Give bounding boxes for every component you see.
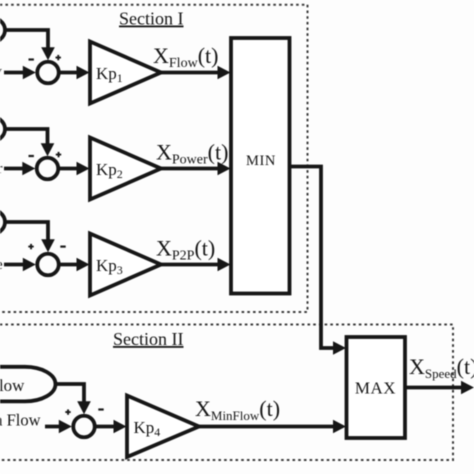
svg-text:e: e [0,257,3,273]
svg-text:MAX: MAX [355,379,396,398]
arrow MAX output [461,381,474,395]
wire input arrow row 4 [45,425,62,429]
wire S3 to Kp3 [61,263,81,267]
summing junction S2 [37,158,59,180]
arrow into Kp4 [114,420,127,434]
plus sign S1 [56,57,61,59]
svg-text:Flow: Flow [0,376,25,395]
sign symbols [28,55,103,415]
op-amp gain Kp1 [90,42,161,104]
arrow into MAX top input [333,341,346,355]
wire input arrow row 1 [4,71,26,75]
plus sign S2 [56,154,61,156]
Section II dashed box [0,325,453,461]
summing junction S4 [73,416,95,438]
arrow into S3 top [41,239,55,252]
arrow into MIN row1 [218,66,231,80]
wire oval3 to summer 3 [5,222,48,242]
wire Kp3 to MIN [161,263,219,267]
op-amp gain Kp2 [90,138,161,200]
input oval row 3 [0,209,5,236]
arrow into S1 left [23,66,36,80]
svg-text:MIN: MIN [246,153,276,169]
svg-text:w: w [0,64,2,80]
minus sign S3 [60,246,65,248]
arrow into S2 top [41,143,55,156]
wire stadium to summer 4 [54,384,84,404]
arrow into MIN row3 [218,258,231,272]
arrow into S4 left [59,420,72,434]
arrowheads [22,47,474,433]
svg-text:Section I: Section I [119,9,184,29]
input oval row 1 [0,17,5,44]
minus sign S1 [29,58,34,60]
arrow into S4 top [77,401,91,414]
wire input arrow row 2 [4,167,25,171]
svg-text:Min Flow: Min Flow [0,411,41,430]
minus sign S2 [29,155,34,157]
summing junction S1 [37,62,59,84]
wire input arrow row 3 [4,263,25,267]
wire S1 to Kp1 [61,71,81,75]
op-amp gain Kp4 [127,396,199,458]
plus sign S3 [28,246,33,248]
wire oval2 to summer 2 [5,129,48,146]
wire oval1 to summer 1 [5,30,48,50]
summing junction S3 [37,254,59,276]
wire MAX output [405,386,462,390]
MAX block [347,337,406,438]
arrow into MIN row2 [218,162,231,176]
input oval row 2 [0,116,5,143]
arrow into Kp3 [77,258,90,272]
arrow into S1 top [41,47,55,60]
MIN block [231,38,290,294]
Section I dashed box [0,5,308,312]
wire S2 to Kp2 [60,167,80,171]
minus sign S4 [98,408,103,410]
wire MIN to MAX [291,167,335,349]
arrow into Kp2 [77,162,90,176]
arrow into Kp1 [77,66,90,80]
plus sign S4 [65,411,70,413]
svg-text:r: r [0,161,3,177]
op-amp gain Kp3 [90,234,161,296]
arrow into S3 left [23,258,36,272]
input stadium MinFlow [0,367,56,402]
wire Kp4 to MAX [199,425,335,429]
wire S4 to Kp4 [97,425,117,429]
svg-text:Section II: Section II [113,329,183,349]
arrow into S2 left [22,162,35,176]
wire Kp1 to MIN [161,71,219,75]
wire Kp2 to MIN [161,167,219,171]
arrow into MAX bottom input [333,420,346,434]
